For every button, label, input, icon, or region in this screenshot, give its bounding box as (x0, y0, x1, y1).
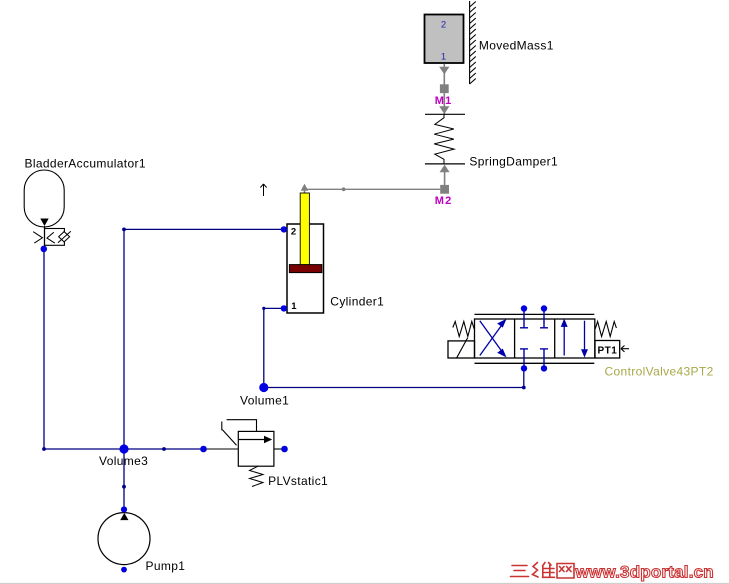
svg-text:BladderAccumulator1: BladderAccumulator1 (25, 156, 146, 170)
svg-text:PLVstatic1: PLVstatic1 (268, 474, 328, 488)
port dots (41, 226, 548, 572)
svg-text:M1: M1 (435, 95, 453, 107)
bottom edge line (0, 582, 729, 584)
accumulator BladderAccumulator1 (24, 170, 71, 249)
waypoint dots (42, 228, 526, 489)
svg-text:M2: M2 (435, 195, 453, 207)
svg-text:2: 2 (441, 20, 446, 31)
wire: cylinder port2 to corner (124, 228, 284, 230)
arrow into PT1 (621, 346, 629, 352)
valve arrows (480, 320, 587, 356)
right spring of valve (595, 322, 616, 337)
svg-text:MovedMass1: MovedMass1 (479, 39, 554, 53)
svg-text:SpringDamper1: SpringDamper1 (469, 155, 558, 169)
svg-text:ControlValve43PT2: ControlValve43PT2 (605, 365, 714, 379)
wire: horizontal line to PLV left port (44, 448, 204, 450)
svg-text:PT1: PT1 (598, 346, 618, 357)
svg-text:Pump1: Pump1 (146, 559, 186, 573)
gray connector spring to M2 (440, 165, 450, 185)
MovedMass1 body (425, 15, 464, 64)
valve ports stems (520, 309, 548, 368)
svg-text:2: 2 (291, 226, 296, 237)
svg-text:www.3dportal.cn: www.3dportal.cn (575, 563, 714, 582)
spring-damper SpringDamper1 (425, 114, 465, 164)
wire: cylinder port1 to corner (264, 307, 284, 309)
gray connector mass to spring (439, 64, 449, 114)
char 三 (511, 566, 529, 577)
wire: corner up to valve P port (523, 368, 525, 387)
cylinder Cylinder1 (287, 193, 324, 313)
svg-text:1: 1 (291, 301, 297, 312)
wire: corner down to Volume1 (263, 308, 265, 387)
gray arrow at rod top (301, 184, 309, 194)
pump Pump1 (98, 513, 150, 565)
svg-text:Cylinder1: Cylinder1 (330, 295, 384, 309)
volume node dots (119, 383, 268, 454)
relief valve PLVstatic1 (204, 420, 285, 487)
gray waypoint dot (342, 187, 346, 191)
wire: corner down through Volume3 to pump (123, 229, 125, 509)
gray link M2 to cylinder rod (305, 188, 440, 190)
svg-text:Volume3: Volume3 (99, 454, 148, 468)
char 维 (533, 563, 555, 578)
watermark (511, 563, 575, 579)
wire: accumulator down to Volume3 (43, 250, 45, 449)
wire: Volume1 to valve bottom corner (264, 387, 524, 389)
char 网 (557, 564, 574, 579)
control valve ControlValve43PT2 (448, 314, 620, 363)
node M1 square (440, 84, 449, 93)
svg-text:1: 1 (441, 52, 446, 63)
svg-text:Volume1: Volume1 (240, 394, 289, 408)
wall hatching (470, 1, 476, 84)
left spring of valve (453, 322, 474, 337)
node M2 square (440, 185, 449, 194)
black up-arrow glyph (260, 184, 266, 196)
